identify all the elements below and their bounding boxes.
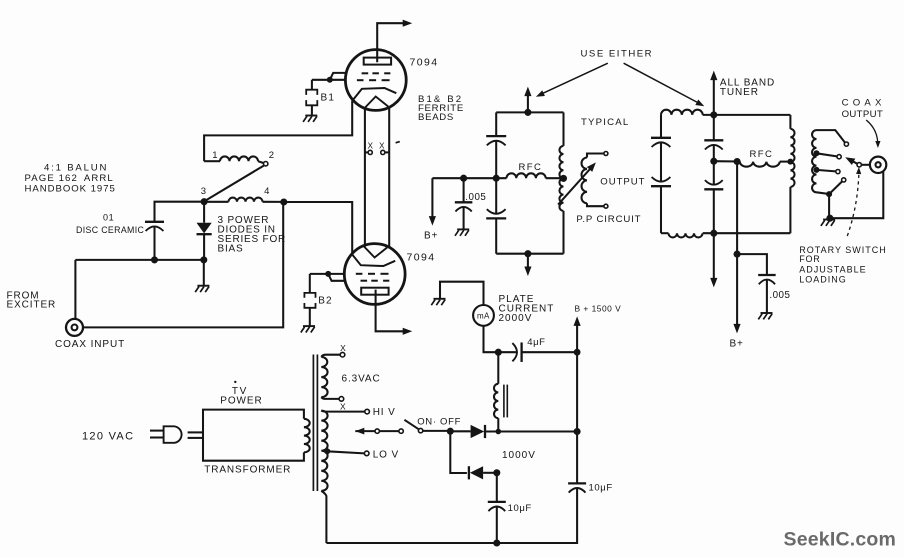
wire B1 to ground (311, 105, 313, 115)
svg-text:B + 1500 V: B + 1500 V (575, 303, 622, 313)
node B+ branch junction (734, 158, 741, 165)
label 4uF (527, 337, 545, 348)
ferrite bead B2 (304, 293, 315, 308)
label 6.3VAC (342, 374, 381, 385)
capacitor C11 10uF (488, 502, 506, 511)
node rectifier input junction (447, 428, 454, 435)
wire C7 to center tap (713, 145, 715, 161)
inductor RFC1 (507, 173, 564, 178)
capacitor C1 .01 disc ceramic (145, 222, 164, 231)
label 01 DISC CERAMIC (76, 212, 145, 235)
wire tap 2 lead (817, 153, 837, 156)
label COAX INPUT (55, 339, 125, 350)
label LO V (373, 449, 399, 460)
wire tank bottom rail (703, 232, 791, 234)
label B+ (left) (424, 231, 438, 242)
pin filament terminal left (368, 150, 372, 154)
label 10uF (left) (508, 503, 532, 514)
pin LO V terminal (364, 451, 369, 456)
arrow rotary wiper blade (845, 157, 857, 165)
label B1&B2 FERRITE BEADS (418, 94, 464, 123)
arrow left tank plate lead down (524, 254, 531, 276)
inductor RFC2 (740, 162, 791, 167)
wire C5 to C6 (660, 142, 662, 181)
triode/beam-tetrode tube V1 7094 (upper) (345, 50, 406, 111)
pin rotary wiper terminal (857, 163, 861, 167)
wire C8 to bottom rail (713, 189, 715, 233)
wire loading coil top tap (817, 130, 846, 143)
label X filament right (379, 141, 385, 150)
svg-text:X: X (368, 141, 374, 150)
label TYPICAL (581, 117, 629, 128)
label X filament left (368, 141, 374, 150)
pin output link bottom (604, 204, 608, 208)
transformer T1 primary box (203, 410, 310, 461)
svg-text:10μF: 10μF (508, 503, 532, 514)
ground below diode chain (195, 286, 209, 292)
wire left rail upper (495, 112, 497, 136)
wire junction to ground (203, 260, 205, 286)
svg-text:PAGE 162 ARRL: PAGE 162 ARRL (25, 173, 114, 184)
arrow left tank plate lead up (524, 87, 531, 113)
node LO V tap (324, 448, 330, 454)
svg-text:P.P CIRCUIT: P.P CIRCUIT (576, 214, 641, 225)
capacitor C12 10uF (568, 483, 586, 492)
wire V1-V2 filament lead left (364, 107, 366, 246)
wire HV winding bottom to rail (321, 491, 326, 543)
diode D1 1000V rectifier (471, 425, 485, 438)
label TV POWER (220, 381, 262, 407)
wire LO V lead (327, 451, 364, 453)
svg-text:COAX: COAX (842, 98, 886, 109)
diode D3 bias chain (197, 223, 212, 234)
svg-text:EXCITER: EXCITER (7, 299, 57, 310)
wire selector link (379, 430, 399, 432)
svg-text:B+: B+ (424, 231, 438, 242)
wire coax shield return (832, 171, 883, 218)
arrow USE EITHER to right tank (624, 63, 705, 106)
svg-text:B1: B1 (321, 93, 336, 104)
triode/beam-tetrode tube V2 7094 (lower, inverted) (344, 244, 405, 305)
ground below C2 (455, 229, 469, 235)
wire bottom tap lead (829, 182, 842, 195)
arrow right tank plate lead up (710, 71, 717, 115)
pin HI V terminal (365, 409, 370, 414)
capacitor C5 upper-left (651, 138, 671, 147)
wire center tap to C8 (713, 161, 715, 185)
wire B+ branch down (736, 162, 738, 255)
pin selector terminal 1 (375, 429, 379, 433)
inductor L6 tank bottom-left (661, 233, 703, 237)
wire HV bottom rail (326, 542, 576, 544)
svg-text:BIAS: BIAS (218, 243, 244, 254)
svg-text:1000V: 1000V (502, 450, 536, 461)
watermark SeekIC.com (784, 528, 897, 550)
label RFC (left) (519, 162, 543, 173)
svg-text:4:1 BALUN: 4:1 BALUN (44, 162, 108, 173)
wire 6.3VAC top lead (321, 355, 340, 357)
node left tank bottom junction (524, 250, 531, 257)
inductor L2 balun winding 3-4 (204, 198, 284, 202)
node center tap junction (710, 158, 717, 165)
pin switch contact right (418, 428, 422, 432)
arrow B+ down (left) (429, 178, 436, 225)
svg-text:B+: B+ (730, 339, 744, 350)
connector J1 coax input (66, 319, 83, 336)
wire switch to rectifier (423, 430, 448, 432)
wire plate meter top (440, 282, 484, 305)
node bottom rail junction (493, 539, 500, 546)
pin rotary contact 3 (836, 170, 840, 174)
arrow B plus 1500V up (574, 316, 581, 352)
label B+ (right) (730, 339, 744, 350)
inductor T1 6.3VAC winding (321, 357, 327, 397)
wire left tank top rail (496, 111, 563, 113)
svg-text:LOADING: LOADING (799, 274, 847, 284)
wire D1 to B+ riser (485, 430, 577, 432)
wire meter to B+ node (484, 326, 518, 352)
wire C2 to ground (463, 207, 465, 229)
wire left tank bottom rail (496, 253, 563, 255)
label FROM EXCITER (7, 290, 57, 310)
node .005 junction (460, 175, 467, 182)
capacitor C9 .005 (758, 275, 776, 284)
node shield junction (826, 215, 833, 222)
node V1 grid junction (327, 77, 333, 83)
node V2 grid junction (325, 271, 331, 277)
wire V1 cathode to balun top (204, 101, 352, 162)
svg-text:TRANSFORMER: TRANSFORMER (204, 464, 291, 475)
svg-text:3: 3 (201, 186, 206, 197)
label RFC (right) (750, 149, 774, 160)
wire junction to ferrite bead B2 (309, 274, 311, 293)
arrow COAX OUTPUT pointer (866, 120, 880, 148)
label B2 (318, 296, 333, 307)
label COAX OUTPUT (842, 98, 886, 120)
capacitor C8 center lower (704, 180, 723, 189)
wire doubler branch down (450, 431, 467, 473)
wire pin4 to V2 cathode (284, 202, 352, 254)
ferrite bead B1 (306, 90, 317, 106)
wire V2 plate lead and output arrow (376, 290, 413, 335)
node right tank bottom junction (710, 230, 717, 237)
node right tank top junction (710, 111, 717, 118)
wire C10 to B+ riser (522, 351, 578, 353)
meter M1 mA plate current (473, 305, 494, 326)
label pin 3 (201, 186, 206, 197)
wire B+ feed line (432, 177, 506, 179)
capacitor C3 tank upper (486, 136, 506, 145)
wire HI V lead (321, 411, 365, 412)
capacitor C6 lower-left (651, 177, 671, 186)
label pin 4 (264, 186, 269, 197)
inductor L5 tank top-left (661, 110, 703, 115)
wire to capacitor C9 (737, 254, 767, 275)
svg-text:LO V: LO V (373, 449, 399, 460)
svg-text:1: 1 (212, 150, 217, 161)
wire B+ riser (576, 352, 578, 483)
svg-text:4: 4 (264, 186, 269, 197)
node RFC2 to tank coil tap (787, 159, 793, 165)
diode D2 doubler (469, 466, 483, 479)
node balun pin 4 (280, 198, 287, 205)
wire bus to coax input (74, 260, 76, 319)
svg-text:BEADS: BEADS (418, 112, 454, 123)
svg-text:X: X (340, 401, 346, 411)
node RFC1 to tank coil tap (560, 175, 567, 182)
svg-text:POWER: POWER (220, 396, 262, 407)
svg-text:2000V: 2000V (499, 313, 533, 324)
node loading coil bottom (826, 191, 832, 197)
svg-text:ON· OFF: ON· OFF (417, 416, 461, 427)
label pin 2 (269, 150, 274, 161)
pin rotary contact 1 (844, 142, 848, 146)
wire center column upper (713, 115, 715, 140)
svg-text:.005: .005 (769, 290, 790, 301)
wire V2 grid leads to junction (310, 274, 346, 281)
pin 2 terminal of balun (264, 162, 268, 166)
node C1 bottom junction (151, 256, 158, 263)
svg-text:ADJUSTABLE: ADJUSTABLE (799, 265, 866, 275)
svg-text:OUTPUT: OUTPUT (600, 177, 645, 188)
wire V1 plate lead and output arrow (377, 20, 412, 63)
node B+ 1500V junction (574, 349, 581, 356)
wire right tank left rail upper (660, 115, 662, 138)
svg-text:X: X (379, 141, 385, 150)
node loading coil tap 3 (814, 167, 820, 173)
svg-text:OUTPUT: OUTPUT (842, 109, 884, 120)
wire B2 to ground (309, 308, 311, 326)
capacitor C2 .005 (455, 202, 473, 211)
node balun pin 3 (201, 198, 208, 205)
inductor L1 balun winding 1-2 (204, 156, 263, 163)
wire balun cross link 2-3 (205, 166, 263, 201)
label X bottom (340, 401, 346, 411)
wire C12 to bottom rail (575, 488, 578, 543)
wire to diode D1 (450, 430, 470, 432)
node left tank top junction (524, 109, 531, 116)
arrow USE EITHER to left tank (536, 63, 608, 97)
node diode chain junction (200, 256, 207, 263)
wire plug to transformer (188, 432, 203, 438)
wire wiper to coax output (861, 164, 870, 166)
mark small tick (396, 142, 400, 143)
wire D2 to C11 (483, 472, 494, 474)
svg-text:COAX INPUT: COAX INPUT (55, 339, 125, 350)
wire C1 to input bus (153, 226, 155, 260)
inductor L8 loading coil (812, 130, 829, 194)
svg-text:7094: 7094 (410, 57, 439, 69)
label PLATE CURRENT 2000V (499, 294, 555, 324)
wire filament pin tick right (385, 151, 389, 153)
arrow HV selector (355, 428, 375, 435)
wire coax input to pin4 (83, 202, 283, 327)
label X top (340, 343, 346, 353)
arrow right tank lead down (710, 233, 717, 287)
label HI V (373, 407, 396, 418)
wire pin3 to capacitor C1 (155, 202, 205, 222)
svg-text:120 VAC: 120 VAC (82, 431, 134, 443)
svg-text:X: X (340, 343, 346, 353)
label 1000V (502, 450, 536, 461)
capacitor C4 tank lower (486, 209, 506, 218)
ground below C9 (758, 313, 772, 319)
svg-text:TYPICAL: TYPICAL (581, 117, 629, 128)
node choke top junction (495, 349, 502, 356)
wire D3 to junction (203, 234, 205, 260)
node choke bottom junction (496, 429, 502, 435)
label 3 POWER DIODES note (218, 215, 287, 255)
plug AC line (150, 426, 182, 443)
svg-text:RFC: RFC (519, 162, 543, 173)
svg-text:mA: mA (477, 312, 490, 321)
pin switch contact left (399, 429, 403, 433)
inductor L3 tank coil (559, 112, 563, 253)
wire C3 to junction (495, 141, 497, 179)
label USE EITHER (581, 49, 654, 60)
arrow rotary switch pointer (dashed) (847, 167, 861, 236)
capacitor C10 4uF coupling (512, 342, 521, 362)
svg-text:01: 01 (103, 212, 114, 222)
svg-text:2: 2 (269, 150, 274, 161)
label .005 (right) (769, 290, 790, 301)
wire coil bottom to shield (828, 194, 830, 218)
ground near meter (431, 299, 445, 305)
wire C4 to bottom rail (495, 218, 497, 253)
wire V1 grid leads to junction (312, 73, 346, 80)
label 10uF (right) (589, 482, 613, 493)
label B1 (321, 93, 336, 104)
svg-text:.005: .005 (465, 192, 486, 203)
label TRANSFORMER (204, 464, 291, 475)
wire filament pin tick left (365, 151, 368, 153)
pin rotary contact 2 (837, 155, 841, 159)
svg-text:HANDBOOK 1975: HANDBOOK 1975 (25, 183, 116, 194)
wire C6 to bottom rail (660, 186, 662, 233)
switch S1 ON-OFF blade (404, 420, 418, 429)
svg-text:TUNER: TUNER (720, 87, 759, 98)
svg-text:SeekIC.com: SeekIC.com (784, 528, 897, 550)
inductor L4 output link (582, 154, 604, 207)
label ALL BAND TUNER (720, 78, 775, 99)
wire center tap to RFC2 (714, 160, 740, 162)
wire input bus (75, 259, 203, 261)
inductor L7 tank right coil (790, 115, 794, 233)
label OUTPUT (link) (600, 177, 645, 188)
svg-text:B2: B2 (318, 296, 333, 307)
wire C9 to ground (766, 280, 768, 313)
transformer T1 core (313, 355, 317, 492)
connector J2 coax output (870, 157, 886, 173)
wire junction to ferrite bead B1 (311, 80, 313, 90)
wire junction to C4 (495, 178, 497, 214)
svg-text:10μF: 10μF (589, 482, 613, 493)
pin rotary contact 4 (842, 178, 846, 182)
ground below B1 (303, 116, 317, 122)
node loading coil tap 2 (814, 150, 820, 156)
svg-text:7094: 7094 (407, 251, 436, 263)
label ROTARY SWITCH FOR ADJUSTABLE LOADING (799, 245, 887, 285)
node left tank feed junction (493, 175, 500, 182)
label .005 (left) (465, 192, 486, 203)
arrow B+ down (right) (733, 254, 740, 333)
label 4:1 BALUN note (25, 162, 116, 194)
capacitor C7 center upper (704, 140, 723, 149)
wire V1-V2 filament lead right (388, 106, 390, 248)
wire to capacitor C2 (463, 178, 465, 202)
ground below rotary switch (821, 218, 835, 226)
inductor T1 HV winding (321, 411, 327, 491)
label 120 VAC (82, 431, 134, 443)
ground below B2 (301, 326, 315, 332)
label pin 1 (212, 150, 217, 161)
label 7094 for V1 (410, 57, 439, 69)
svg-text:HI V: HI V (373, 407, 396, 418)
pin output link top (604, 152, 608, 156)
wire tap 3 lead (817, 170, 836, 172)
node doubler junction (493, 469, 500, 476)
svg-text:FOR: FOR (799, 254, 820, 264)
svg-text:RFC: RFC (750, 149, 774, 160)
node .005 branch junction (734, 251, 741, 258)
svg-text:6.3VAC: 6.3VAC (342, 374, 381, 385)
wire tank top rail (703, 114, 791, 116)
svg-text:DISC CERAMIC: DISC CERAMIC (76, 225, 145, 235)
wire C11 to bottom rail (496, 507, 498, 544)
pin 6.3VAC X top (340, 352, 345, 357)
node B+ riser junction (574, 428, 581, 435)
wire to capacitor C11 (496, 473, 498, 502)
svg-text:4μF: 4μF (527, 337, 545, 348)
arrow variable coupling (558, 162, 596, 204)
wire 6.3VAC bottom lead (321, 397, 339, 399)
label ON-OFF (417, 416, 461, 427)
label 7094 for V2 (407, 251, 436, 263)
pin filament terminal right (381, 150, 385, 154)
label P.P CIRCUIT (576, 214, 641, 225)
label B + 1500 V (575, 303, 622, 313)
svg-text:USE EITHER: USE EITHER (581, 49, 654, 60)
inductor L9 filter choke (494, 352, 507, 431)
wire pin3 to diode D3 (203, 202, 205, 223)
pin 6.3VAC X bottom (339, 397, 344, 402)
